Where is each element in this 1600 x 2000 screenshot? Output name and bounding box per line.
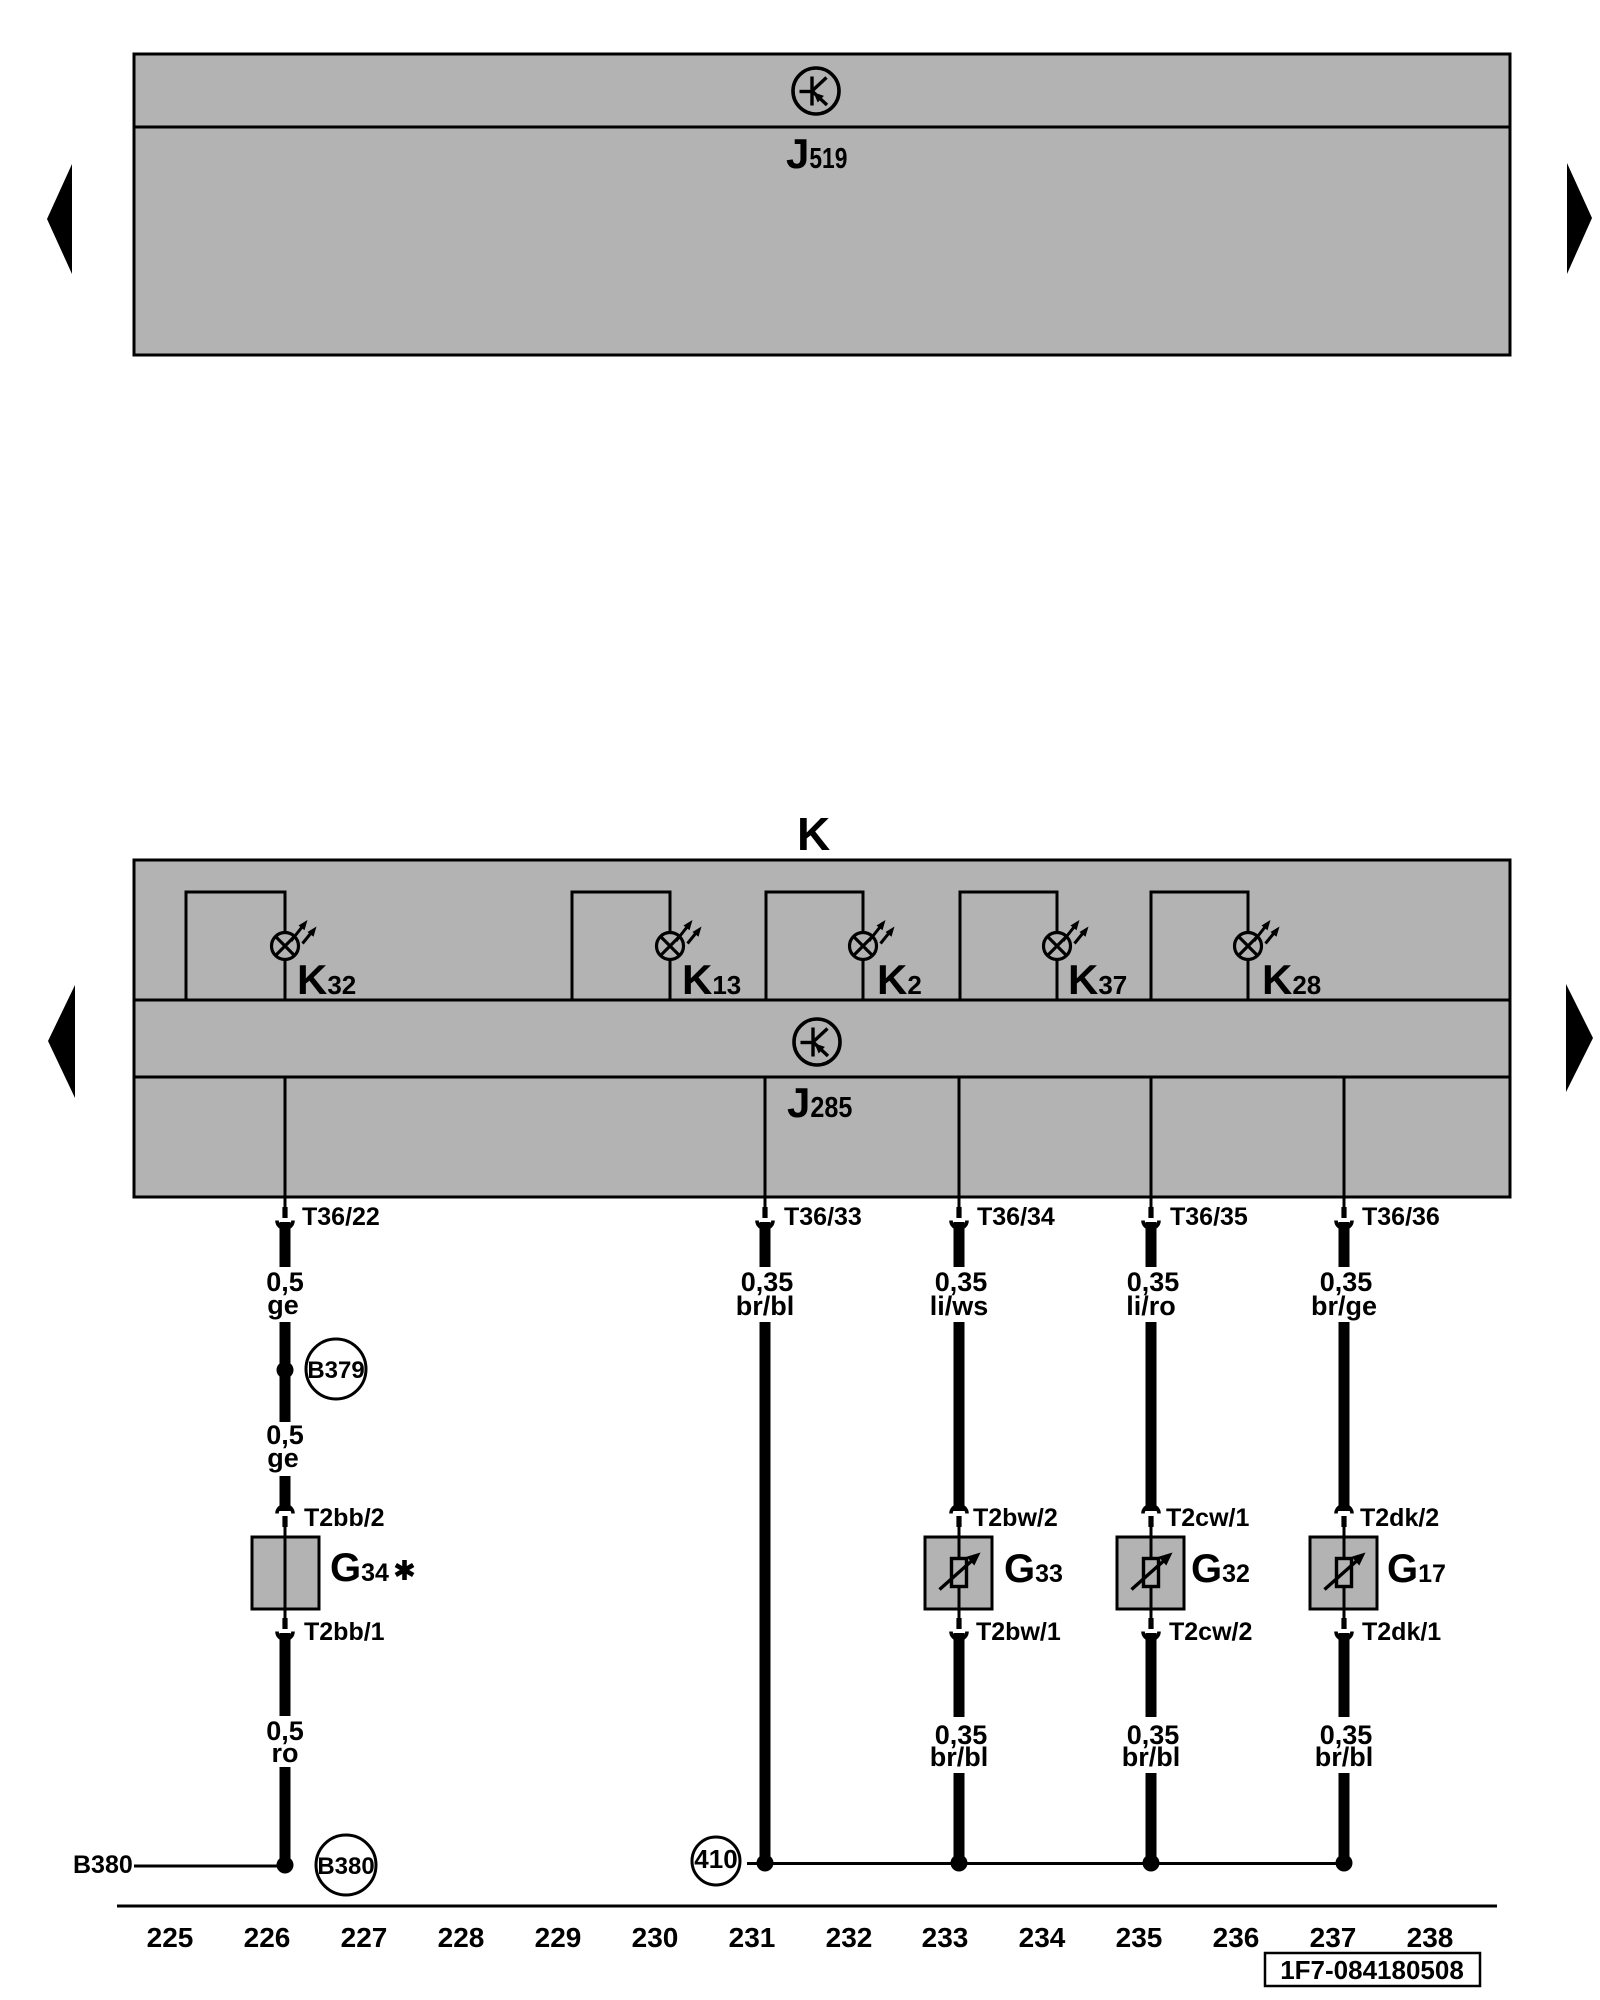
wire 0,5 ge upper <box>280 1222 291 1267</box>
svg-text:B380: B380 <box>73 1851 133 1879</box>
connection B379 <box>306 1339 366 1399</box>
inner separator line <box>134 126 1510 129</box>
svg-text:231: 231 <box>729 1922 776 1953</box>
terminal T36/22 <box>277 1207 293 1229</box>
lamp K2 <box>850 920 895 960</box>
svg-text:B380: B380 <box>317 1853 374 1880</box>
connection 410 <box>692 1837 740 1885</box>
junction wire4/bus <box>1143 1855 1160 1872</box>
svg-text:br/bl: br/bl <box>736 1291 795 1321</box>
svg-text:ro: ro <box>272 1738 299 1768</box>
svg-text:236: 236 <box>1213 1922 1260 1953</box>
sensor G33 <box>925 1537 992 1609</box>
wire 0,35 li/ro <box>1146 1222 1157 1267</box>
wire 0,35 br/bl <box>760 1222 771 1267</box>
lamp K28 bracket <box>1151 892 1248 1000</box>
svg-text:B379: B379 <box>307 1357 364 1384</box>
wire internal to pin T36/35 <box>1150 1077 1153 1208</box>
terminal T2dk/2 <box>1336 1506 1352 1528</box>
svg-text:410: 410 <box>694 1844 737 1874</box>
svg-text:235: 235 <box>1116 1922 1163 1953</box>
terminal T2bb/1 <box>284 1609 287 1618</box>
lamp K37 <box>1044 920 1089 960</box>
svg-text:T2dk/1: T2dk/1 <box>1362 1618 1441 1646</box>
asterisk for G34 <box>396 1560 413 1580</box>
wire internal to pin T36/36 <box>1343 1077 1346 1208</box>
track baseline <box>117 1905 1497 1908</box>
wire 0,35 li/ws <box>954 1222 965 1267</box>
wire 0,35 br/ge <box>1339 1222 1350 1267</box>
svg-text:T36/35: T36/35 <box>1170 1203 1248 1231</box>
control unit J519 box <box>134 54 1510 355</box>
sensor G32 <box>1117 1537 1184 1609</box>
wire internal to pin T36/22 <box>284 1077 287 1208</box>
svg-text:li/ro: li/ro <box>1126 1291 1176 1321</box>
svg-text:T36/34: T36/34 <box>977 1203 1055 1231</box>
svg-text:T2cw/1: T2cw/1 <box>1166 1504 1249 1532</box>
svg-text:ge: ge <box>267 1290 299 1320</box>
svg-text:230: 230 <box>632 1922 679 1953</box>
wire 0,35 br/bl <box>1146 1633 1157 1717</box>
lamp K28 <box>1235 920 1280 960</box>
svg-text:T2bb/2: T2bb/2 <box>304 1504 385 1532</box>
right continuation arrow (top) <box>1567 163 1592 274</box>
terminal T2bw/2 <box>951 1506 967 1528</box>
svg-text:K: K <box>797 808 830 860</box>
lamp K2 bracket <box>766 892 863 1000</box>
svg-text:225: 225 <box>147 1922 194 1953</box>
ground bus wire <box>747 1862 1351 1865</box>
svg-text:li/ws: li/ws <box>930 1291 989 1321</box>
junction B380 <box>277 1857 294 1874</box>
diagram id box <box>1265 1953 1480 1986</box>
K diagnostic symbol middle <box>794 1019 840 1065</box>
svg-text:T2dk/2: T2dk/2 <box>1360 1504 1439 1532</box>
svg-text:1F7-084180508: 1F7-084180508 <box>1280 1955 1464 1985</box>
svg-text:T2bw/2: T2bw/2 <box>973 1504 1058 1532</box>
svg-text:227: 227 <box>341 1922 388 1953</box>
svg-text:G34: G34 <box>330 1546 389 1590</box>
svg-text:ge: ge <box>267 1443 299 1473</box>
lamp K13 bracket <box>572 892 670 1000</box>
svg-text:br/bl: br/bl <box>1122 1742 1181 1772</box>
connection B380 <box>316 1835 376 1895</box>
sender G34 <box>252 1537 319 1609</box>
right continuation arrow (middle) <box>1566 984 1593 1092</box>
terminal T36/36 <box>1336 1207 1352 1229</box>
left continuation arrow (top) <box>47 164 72 274</box>
svg-text:238: 238 <box>1407 1922 1454 1953</box>
svg-text:234: 234 <box>1019 1922 1066 1953</box>
left continuation arrow (middle) <box>48 985 75 1098</box>
junction B379 <box>277 1362 294 1379</box>
terminal T2bw/1 <box>958 1609 961 1618</box>
svg-text:G17: G17 <box>1387 1547 1446 1591</box>
lamp K32 <box>272 920 317 960</box>
K diagnostic symbol top <box>793 68 839 114</box>
wire 0,35 br/bl <box>1339 1633 1350 1717</box>
svg-text:G32: G32 <box>1191 1547 1250 1591</box>
terminal T36/33 <box>757 1207 773 1229</box>
svg-text:br/bl: br/bl <box>1315 1742 1374 1772</box>
svg-text:T36/22: T36/22 <box>302 1203 380 1231</box>
svg-text:237: 237 <box>1310 1922 1357 1953</box>
instrument cluster K box <box>134 860 1510 1197</box>
svg-text:228: 228 <box>438 1922 485 1953</box>
junction wire5/bus <box>1336 1855 1353 1872</box>
svg-text:T36/36: T36/36 <box>1362 1203 1440 1231</box>
svg-text:229: 229 <box>535 1922 582 1953</box>
svg-text:233: 233 <box>922 1922 969 1953</box>
junction wire3/bus <box>951 1855 968 1872</box>
lamp K37 bracket <box>960 892 1057 1000</box>
terminal T2bb/2 <box>277 1506 293 1528</box>
inner line 1 <box>134 999 1510 1002</box>
inner line 2 <box>134 1076 1510 1079</box>
svg-text:T2cw/2: T2cw/2 <box>1169 1618 1252 1646</box>
svg-text:br/ge: br/ge <box>1311 1291 1377 1321</box>
wire 0,35 br/bl <box>954 1633 965 1717</box>
junction 410 <box>757 1855 774 1872</box>
sensor G17 <box>1310 1537 1377 1609</box>
svg-text:232: 232 <box>826 1922 873 1953</box>
svg-text:G33: G33 <box>1004 1547 1063 1591</box>
terminal T2cw/2 <box>1150 1609 1153 1618</box>
terminal T2dk/1 <box>1343 1609 1346 1618</box>
wire internal to pin T36/33 <box>764 1077 767 1208</box>
terminal T36/34 <box>951 1207 967 1229</box>
lamp K32 bracket <box>186 892 285 1000</box>
wire 0,5 ro <box>280 1633 291 1716</box>
wire to B380 label <box>134 1865 285 1868</box>
svg-text:T2bw/1: T2bw/1 <box>976 1618 1061 1646</box>
svg-text:br/bl: br/bl <box>930 1742 989 1772</box>
svg-text:T36/33: T36/33 <box>784 1203 862 1231</box>
terminal T36/35 <box>1143 1207 1159 1229</box>
svg-text:226: 226 <box>244 1922 291 1953</box>
lamp K13 <box>657 920 702 960</box>
wire internal to pin T36/34 <box>958 1077 961 1208</box>
terminal T2cw/1 <box>1143 1506 1159 1528</box>
svg-text:T2bb/1: T2bb/1 <box>304 1618 385 1646</box>
